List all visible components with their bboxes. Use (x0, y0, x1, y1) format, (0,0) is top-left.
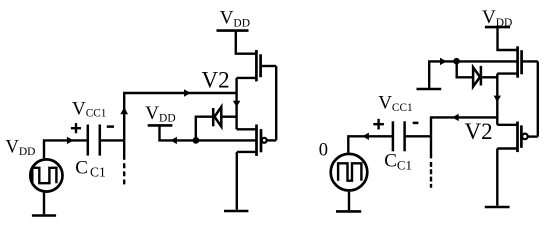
svg-text:VCC1: VCC1 (72, 98, 106, 119)
ground (right source) (348, 192, 350, 211)
M4 bubble wire (528, 135, 538, 137)
M2 bubble wire (267, 139, 276, 141)
svg-text:CC1: CC1 (75, 158, 105, 180)
VDD tap stem and wire to dot (160, 125, 196, 140)
arrow left on tap wire (170, 137, 177, 144)
VDD top bar (217, 29, 249, 32)
output vertical (left) (235, 78, 237, 129)
arrow up on node vertical (120, 107, 128, 114)
svg-text:V2: V2 (465, 119, 493, 144)
M4 gate bubble (522, 134, 528, 140)
wire diode to output vertical (482, 76, 497, 78)
capacitor CC1 right plates (392, 121, 395, 151)
transistor M3 channel bar (516, 46, 519, 77)
label CC1 (right) (384, 151, 412, 173)
arrow left on right V2 wire (452, 114, 459, 121)
ground (left output) (224, 210, 248, 213)
transistor M4 gate bar (520, 125, 523, 147)
wire right source to capacitor (348, 136, 392, 153)
svg-text:VDD: VDD (220, 8, 250, 30)
transistor M1 gate bar (259, 54, 262, 77)
arrow left on right source wire (362, 133, 369, 140)
label VDD (top right) (482, 7, 512, 29)
M3 gate lead (522, 60, 538, 62)
M1 gate lead (261, 65, 277, 67)
tap stem and wire to dot (right) (429, 61, 456, 89)
wire right plate to node (406, 135, 432, 137)
pulse waveform inside source (32, 168, 56, 183)
ground (right output) (485, 206, 510, 209)
dashed line below right node (430, 162, 432, 188)
wire source to capacitor (44, 140, 87, 158)
VDD stem to M3 drain (498, 27, 518, 50)
VDD stem to M1 drain (236, 31, 257, 54)
wire diode to output vertical (222, 115, 236, 117)
M2 gate bubble (262, 138, 267, 143)
node vertical (right) (431, 117, 497, 158)
bulk wire dot to M2 (196, 139, 257, 141)
transistor M1 channel bar (255, 50, 258, 81)
M4 source lead (497, 147, 517, 149)
wire capacitor to node (101, 139, 124, 141)
pulse waveform inside right source (338, 163, 361, 180)
VDD tap bar (148, 124, 173, 127)
label VCC1 (72, 98, 106, 119)
arrow down on output vertical (233, 101, 240, 108)
output vertical (right) (496, 74, 498, 125)
M3 source lead (497, 72, 517, 74)
svg-text:VDD: VDD (145, 103, 175, 125)
node vertical and V2 wire (124, 93, 236, 140)
svg-text:VDD: VDD (6, 137, 36, 158)
label CC1 (75, 158, 105, 180)
svg-text:VCC1: VCC1 (378, 93, 412, 115)
ground (left source) (43, 193, 45, 215)
M2 drain lead (237, 128, 257, 130)
pulse source V2src (circle) (331, 154, 368, 191)
svg-text:0: 0 (319, 140, 328, 160)
M2 source lead (237, 151, 257, 153)
transistor M2 gate bar (260, 129, 263, 152)
label VDD (left source) (6, 137, 36, 158)
svg-text:VDD: VDD (482, 7, 512, 29)
arrow right on source wire (67, 137, 74, 144)
label VDD (tap) (145, 103, 175, 125)
junction dot (left) (193, 137, 200, 144)
minus sign (right) (413, 122, 419, 125)
diode D2 (points right, hollow) (473, 67, 480, 86)
ground tap (right) bar (417, 88, 442, 91)
diode D1 (points left, hollow) (215, 107, 222, 127)
gate tie vertical (275, 66, 277, 140)
bulk wire dot to M3 (457, 60, 518, 62)
VDD top right bar (485, 26, 510, 29)
label V2 (left) (202, 68, 230, 93)
plus sign (right) (373, 119, 384, 130)
label VCC1 (right) (378, 93, 412, 115)
label 0 (right source) (319, 140, 328, 160)
transistor M2 channel bar (255, 125, 258, 156)
source down wire (right) (496, 149, 498, 206)
gate tie vertical (right) (537, 61, 539, 136)
plus sign (71, 123, 81, 133)
minus sign (107, 125, 114, 128)
arrow right on V2 wire (184, 89, 191, 96)
label VDD (top left) (220, 8, 250, 30)
label V2 (right) (465, 119, 493, 144)
diode branch riser (196, 117, 212, 141)
arrow right on tap wire (440, 58, 447, 65)
M4 drain lead (497, 124, 517, 126)
source down wire (236, 152, 238, 210)
svg-text:V2: V2 (202, 68, 230, 93)
diode branch riser (right) (457, 61, 473, 77)
dashed line below node (123, 140, 125, 159)
svg-text:CC1: CC1 (384, 151, 412, 173)
arrow down on right output vertical (494, 96, 501, 103)
transistor M4 channel bar (516, 122, 519, 153)
pulse source V1 (circle) (30, 159, 62, 191)
junction dot (right) (453, 58, 460, 65)
capacitor CC1 plates (87, 125, 90, 156)
transistor M3 gate bar (520, 50, 523, 74)
M1 source lead (237, 77, 257, 79)
